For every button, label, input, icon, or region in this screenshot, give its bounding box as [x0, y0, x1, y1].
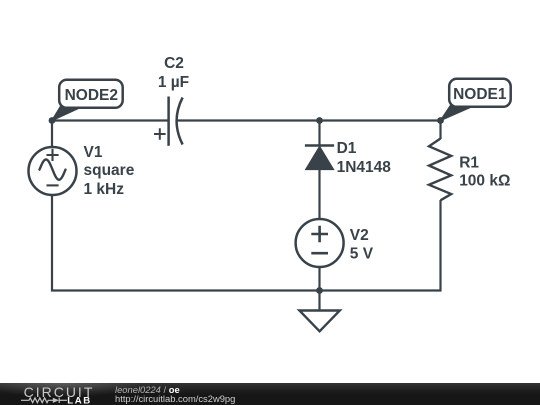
svg-text:C2: C2: [164, 55, 184, 72]
voltage source V2: [296, 219, 344, 267]
logo diode doodle: [53, 398, 59, 403]
node junction dot at D1 top: [316, 117, 323, 124]
label R1 value: [459, 155, 510, 190]
svg-text:D1: D1: [337, 140, 357, 157]
svg-text:1 µF: 1 µF: [158, 74, 189, 91]
svg-text:NODE2: NODE2: [65, 87, 118, 104]
wire NODE1 to R1 top: [439, 120, 441, 140]
wire top rail left: node2 to C2 left plate: [52, 119, 169, 121]
node A junction dot NODE2: [49, 117, 56, 124]
CircuitLab logo: [0, 383, 112, 405]
resistor R1: [429, 139, 451, 201]
svg-text:square: square: [84, 162, 135, 179]
label C2 value: [158, 55, 189, 91]
svg-text:100 kΩ: 100 kΩ: [459, 173, 510, 190]
wire ground stub: [318, 291, 320, 311]
wire V1 top stub: [51, 120, 53, 148]
ground: [299, 311, 339, 332]
svg-text:R1: R1: [459, 155, 479, 172]
svg-text:1N4148: 1N4148: [337, 159, 392, 176]
label V2 value: [350, 227, 374, 262]
svg-text:5 V: 5 V: [350, 245, 374, 262]
footer bar: [0, 383, 540, 405]
capacitor C2: [154, 97, 183, 146]
wire R1 bottom to rail: [439, 200, 441, 292]
voltage source V1: [29, 147, 77, 195]
logo resistor doodle: [21, 398, 67, 403]
diode D1: [305, 146, 334, 170]
wire D1 anode to V2 top: [318, 169, 320, 220]
wire node to D1 cathode: [318, 120, 320, 146]
label V1 value: [84, 144, 135, 198]
wire top rail right: C2 right plate to NODE1: [178, 119, 441, 121]
svg-text:V1: V1: [84, 144, 103, 161]
net label NODE1: [441, 79, 511, 121]
footer credit text: [115, 386, 235, 403]
footer logo glow: [0, 383, 220, 405]
svg-text:NODE1: NODE1: [453, 86, 507, 103]
svg-text:V2: V2: [350, 227, 369, 244]
wire V1 bottom to rail: [51, 195, 53, 292]
node junction dot bottom rail / ground: [316, 287, 323, 294]
wire V2 bottom to rail: [318, 267, 320, 291]
label D1 value: [337, 140, 392, 176]
wire bottom rail: [51, 289, 442, 291]
node B junction dot NODE1: [437, 117, 444, 124]
svg-text:LAB: LAB: [67, 396, 92, 405]
net label NODE2: [52, 80, 123, 121]
svg-text:1 kHz: 1 kHz: [84, 181, 125, 198]
